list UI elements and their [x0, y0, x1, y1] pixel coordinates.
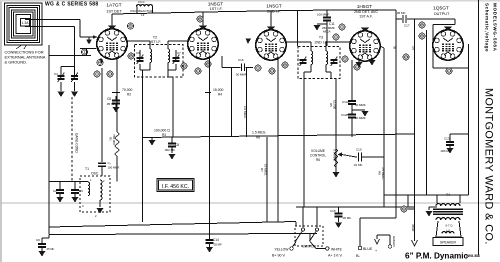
svg-text:C13: C13 — [444, 137, 450, 141]
T4 secondary coil — [436, 218, 460, 220]
wire loop lower lead — [25, 26, 75, 28]
T4 primary coil — [436, 195, 438, 203]
voltage circle V1 a — [81, 49, 87, 55]
oscillator transformer T1 box — [80, 176, 110, 212]
voltage circle V3 c — [282, 62, 288, 68]
wire transformer top bus — [384, 194, 469, 196]
svg-text:1A7GT: 1A7GT — [106, 3, 121, 9]
svg-text:CONTROL: CONTROL — [310, 154, 326, 158]
wire T2 secondary top — [167, 41, 169, 49]
voltage circle V1 e — [94, 71, 100, 77]
T1 coil secondary — [100, 180, 102, 200]
wire x427 drop — [426, 30, 428, 195]
svg-text:C4: C4 — [54, 72, 58, 76]
gang condenser link — [71, 97, 73, 181]
svg-text:MONTGOMERY WARD & CO.: MONTGOMERY WARD & CO. — [483, 88, 495, 245]
svg-text:C14: C14 — [213, 238, 219, 242]
padder capacitor C3 — [74, 182, 76, 190]
voltage circle V4 c — [342, 56, 348, 62]
speaker cone — [436, 221, 461, 237]
svg-text:OSC.: OSC. — [91, 172, 99, 176]
wire T3 primary top — [285, 41, 311, 43]
svg-text:Schematic,Voltage: Schematic,Voltage — [485, 3, 490, 52]
capacitor C14 — [209, 234, 211, 239]
svg-text:C17: C17 — [404, 24, 410, 28]
ground T1 — [99, 200, 101, 207]
svg-text:0-6 Ω: 0-6 Ω — [138, 0, 144, 4]
svg-text:30 MMF.: 30 MMF. — [355, 116, 366, 120]
svg-text:& GROUND.: & GROUND. — [5, 60, 28, 65]
svg-text:YELLOW: YELLOW — [274, 248, 289, 252]
svg-text:6-7 Ω: 6-7 Ω — [446, 224, 453, 228]
svg-text:0.5 MEG.: 0.5 MEG. — [333, 150, 337, 162]
wire V5 box — [433, 24, 455, 26]
capacitor C11 100 MMF — [326, 10, 328, 17]
T2 primary coil — [150, 49, 152, 63]
wire C12 mid — [351, 105, 353, 115]
voltage circle V3 a — [255, 65, 261, 71]
wire x336 drop R5 — [335, 78, 337, 148]
trimmer capacitor C4 — [60, 67, 62, 76]
svg-text:50 MMF.: 50 MMF. — [236, 73, 247, 77]
svg-text:70,000: 70,000 — [122, 88, 132, 92]
svg-text:C15: C15 — [330, 209, 336, 213]
svg-text:1Q5GT: 1Q5GT — [433, 6, 449, 12]
svg-text:B-: B- — [356, 253, 361, 258]
tube V1 1A7GT — [97, 26, 127, 60]
wire T2 secondary bottom — [167, 63, 169, 70]
scan edge strip left — [0, 0, 2, 262]
ground T4 — [429, 206, 437, 208]
wire x246 drop R5 2meg — [246, 68, 248, 138]
wire V1 pin stub osc grid — [101, 59, 103, 62]
svg-text:I.F. 456 KC.: I.F. 456 KC. — [162, 184, 189, 190]
capacitor C17 .05 MF — [402, 15, 404, 23]
svg-text:R6: R6 — [316, 158, 320, 162]
switch pole 2 — [315, 228, 318, 231]
voltage circle V4 a — [339, 24, 345, 30]
svg-text:2.0 MEG.: 2.0 MEG. — [243, 106, 247, 119]
wire T2 trimmer joins — [139, 50, 141, 58]
wire C17 line — [396, 18, 402, 20]
voltage circle V4 b — [333, 34, 339, 40]
wire x385 drop — [380, 46, 384, 48]
voltage circle V2 d — [197, 16, 203, 22]
ground at R3 — [151, 137, 153, 140]
voltage circle V1 b — [97, 59, 103, 65]
svg-text:3.5: 3.5 — [411, 46, 415, 50]
svg-text:.05 MF.: .05 MF. — [342, 216, 352, 220]
T2 secondary trimmer C7 — [173, 57, 180, 59]
svg-text:1ST I.F.: 1ST I.F. — [149, 40, 162, 44]
loop antenna inner lead box — [21, 19, 30, 27]
capacitor C4 osc grid 100 MMF — [98, 162, 106, 164]
svg-text:T2: T2 — [153, 36, 157, 40]
wire A+ rail — [49, 222, 296, 228]
svg-text:.05 MF.: .05 MF. — [106, 102, 116, 106]
svg-text:B+ 90 V.: B+ 90 V. — [272, 254, 286, 258]
IF 456 KC box — [157, 179, 194, 192]
svg-text:MICA: MICA — [323, 30, 331, 34]
wire x142 long drop — [142, 70, 144, 222]
AVC arrow at V1 grid — [88, 37, 90, 40]
wire V1 pin stub a — [100, 58, 102, 63]
capacitor C15 — [338, 207, 340, 213]
switch box — [295, 226, 323, 246]
wire AVC bus — [49, 55, 91, 57]
wire top screen bus — [112, 10, 396, 14]
svg-text:.002 MF.: .002 MF. — [164, 148, 176, 152]
voltage circle V5 c — [446, 68, 452, 74]
ground volume control — [335, 170, 337, 172]
svg-text:100,000 Ω: 100,000 Ω — [154, 129, 170, 133]
tube V3 1N5GT — [256, 27, 286, 61]
wire V2 plate stub — [209, 57, 211, 234]
svg-text:C12A: C12A — [342, 100, 350, 104]
svg-text:T4: T4 — [446, 193, 450, 197]
wire switch feed left — [302, 207, 304, 227]
wire loop upper lead — [25, 19, 80, 21]
wire B- lead — [359, 218, 361, 246]
svg-text:C6: C6 — [136, 51, 140, 55]
capacitor C9 — [48, 235, 50, 239]
svg-text:1ST DET: 1ST DET — [106, 9, 122, 13]
wire B- rail — [49, 234, 317, 235]
T3 secondary trimmer — [331, 59, 338, 61]
svg-text:+: + — [375, 249, 377, 253]
scan edge strip top — [0, 0, 500, 2]
svg-text:.05 MF.: .05 MF. — [213, 243, 222, 247]
IF transformer T3 box — [298, 47, 340, 79]
svg-text:100 MMF.: 100 MMF. — [317, 13, 330, 17]
svg-text:MODEL5WG-588A: MODEL5WG-588A — [493, 3, 498, 52]
tube V2 1N5GT — [188, 26, 218, 60]
svg-text:1.3A: 1.3A — [22, 21, 30, 25]
svg-text:GANG COND.: GANG COND. — [75, 133, 79, 154]
voltage circle V2 a — [181, 63, 187, 69]
voltage circle V5 d — [403, 54, 409, 60]
wire x267 drop R7 — [266, 137, 268, 222]
capacitor C10 — [358, 153, 360, 162]
svg-text:35: 35 — [393, 46, 397, 50]
volume control R6 — [335, 148, 337, 170]
svg-text:15,000: 15,000 — [213, 88, 223, 92]
svg-text:T1: T1 — [85, 167, 89, 171]
switch terminal 2 — [310, 242, 316, 249]
schematic border right — [478, 0, 480, 255]
wire bus drop to V2 top — [202, 12, 204, 27]
wire T2 primary bottom — [149, 63, 151, 70]
wire loop bottom lead — [48, 45, 50, 234]
svg-text:C12B: C12B — [341, 113, 349, 117]
T3 primary trimmer — [300, 59, 307, 61]
voltage circle V2 c — [205, 61, 211, 67]
capacitor C16 50 MMF — [241, 64, 243, 72]
loop antenna L1 — [5, 3, 43, 45]
svg-text:T3: T3 — [319, 36, 323, 40]
svg-text:C9: C9 — [36, 238, 40, 242]
svg-text:R5: R5 — [329, 103, 333, 107]
capacitor C12A — [348, 100, 356, 102]
svg-text:350Ω: 350Ω — [411, 224, 415, 232]
switch terminal 1 — [293, 242, 297, 248]
ground C12 branch — [352, 109, 365, 111]
svg-text:VOLUME: VOLUME — [311, 149, 326, 153]
wire trimmer bracket — [61, 66, 75, 68]
svg-text:6” P.M. Dynamic: 6” P.M. Dynamic — [405, 252, 469, 261]
svg-text:.05 MF.: .05 MF. — [396, 11, 406, 15]
svg-text:C10: C10 — [356, 148, 362, 152]
wire A rail to switch — [295, 222, 297, 226]
wire T2 primary top — [126, 40, 150, 42]
padder capacitor C2 — [59, 182, 61, 190]
T4 core — [433, 208, 463, 210]
voltage circle V1 c — [128, 53, 134, 59]
svg-text:C2: C2 — [53, 189, 57, 193]
voltage circle V3 b — [269, 68, 275, 74]
wire x231 drop — [231, 68, 233, 138]
svg-text:L3: L3 — [141, 13, 145, 17]
wire bus drop to V3 top — [270, 11, 272, 28]
T3 secondary coil — [326, 51, 328, 65]
capacitor C13 — [450, 133, 469, 135]
tube V4 1H5GT — [350, 28, 380, 62]
wire T3 primary top feed — [297, 10, 299, 46]
voltage circle output 90 — [401, 206, 407, 212]
svg-text:C8: C8 — [175, 143, 179, 147]
svg-text:GREEN: GREEN — [392, 236, 396, 247]
wire V1 osc grid drop — [101, 68, 103, 162]
wire x396 B- drop — [395, 19, 397, 218]
svg-text:C7: C7 — [177, 51, 181, 55]
T1 coil primary — [88, 182, 90, 196]
wire B rail to switch — [309, 234, 311, 241]
T3 primary coil — [311, 51, 313, 65]
wire V4 grounds — [358, 60, 360, 62]
svg-text:1N5GT: 1N5GT — [266, 4, 282, 10]
resistor R11 350 ohm arrow — [414, 19, 416, 241]
svg-text:.006 MF.: .006 MF. — [440, 149, 451, 153]
gang tuning capacitor C1 — [74, 67, 76, 76]
battery green lead — [377, 234, 390, 236]
svg-text:R3: R3 — [162, 133, 166, 137]
arrow into V3 grid — [246, 39, 252, 45]
wire C12 bottom — [351, 118, 353, 137]
svg-text:WG & C SERIES 588: WG & C SERIES 588 — [45, 2, 99, 8]
ground C4 — [60, 82, 62, 91]
svg-text:C16: C16 — [238, 58, 244, 62]
wire T3 primary bottom — [310, 65, 312, 72]
ground C1 — [74, 82, 76, 91]
T2 primary trimmer C6 — [137, 57, 144, 59]
wire T3 secondary top — [325, 42, 327, 51]
capacitor C8 — [171, 137, 173, 143]
svg-text:WHITE: WHITE — [331, 248, 343, 252]
grid arrow into 1A7GT — [93, 35, 98, 39]
wire AGC horizontal — [143, 134, 415, 138]
voltage circle V5 a — [419, 22, 425, 28]
wire bus drop to V5 box — [454, 19, 456, 25]
svg-text:SWITCH: SWITCH — [302, 245, 316, 249]
voltage circle V4 d — [354, 64, 360, 70]
svg-text:R8: R8 — [256, 136, 260, 140]
resistor R1 750000 — [116, 57, 118, 132]
svg-text:A+ 1½ V.: A+ 1½ V. — [328, 254, 343, 258]
voltage circle V5 b — [419, 33, 425, 39]
svg-text:1ST I.F.: 1ST I.F. — [209, 7, 222, 11]
osc reactor coil L3 — [137, 5, 153, 7]
svg-text:5WG-588: 5WG-588 — [466, 254, 480, 258]
voltage circle V2 b — [195, 68, 201, 74]
ground at C11 branch — [317, 23, 327, 25]
svg-text:R2: R2 — [127, 93, 131, 97]
wire circle stub — [408, 208, 415, 210]
wire bus drop to V1 top — [111, 14, 113, 27]
wire osc feed — [49, 181, 88, 183]
wire C16 coupling — [221, 56, 223, 68]
wire bus jog at x396 — [395, 10, 397, 19]
svg-text:C5: C5 — [107, 97, 111, 101]
svg-text:R4: R4 — [218, 93, 222, 97]
capacitor C5 .05MF — [115, 96, 117, 100]
tube V5 1Q5GT — [433, 27, 463, 61]
svg-text:.05 MF.: .05 MF. — [46, 247, 55, 251]
wire V4 diode stub — [351, 60, 353, 100]
svg-text:1.5 MEG.: 1.5 MEG. — [252, 131, 266, 135]
wire plate rail — [296, 206, 415, 208]
wire T3 secondary bottom — [325, 65, 327, 72]
wire V3 grid drop — [277, 59, 279, 222]
svg-text:R7: R7 — [260, 168, 264, 172]
wire switch feed right — [316, 207, 318, 227]
svg-text:100 MMF.: 100 MMF. — [108, 166, 121, 170]
svg-text:R1: R1 — [109, 137, 113, 141]
capacitor C12B — [348, 114, 356, 116]
svg-text:.01 MF.: .01 MF. — [353, 163, 363, 167]
switch pole 1 — [301, 228, 304, 231]
svg-text:1ST A.F.: 1ST A.F. — [359, 14, 373, 18]
T2 secondary coil — [168, 49, 170, 63]
svg-text:OUTPUT: OUTPUT — [434, 12, 450, 16]
voltage circle V1 f — [107, 71, 113, 77]
svg-text:50 MMF.: 50 MMF. — [355, 103, 366, 107]
svg-text:R9: R9 — [378, 171, 382, 175]
IF transformer T2 box — [135, 45, 184, 78]
svg-text:SPEAKER: SPEAKER — [440, 241, 457, 245]
svg-text:BLUE: BLUE — [363, 247, 373, 251]
scan fold line — [0, 202, 500, 204]
voltage circle V1 d — [127, 23, 133, 29]
